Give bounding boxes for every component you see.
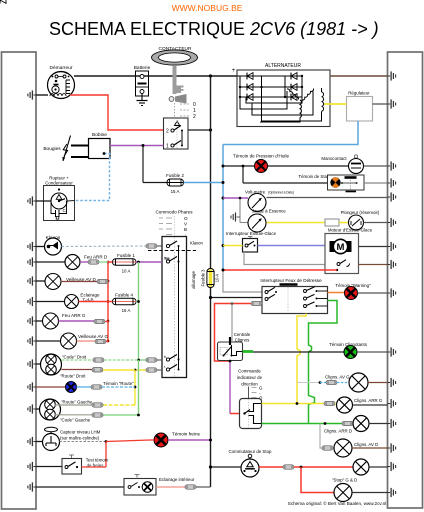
ignition key Contacteur <box>152 46 198 120</box>
ignition coil Bobine <box>89 132 111 159</box>
starter warning row <box>242 165 388 192</box>
régulateur <box>347 91 373 122</box>
connector pill route right <box>92 368 103 372</box>
wire ignition switch output to main vertical <box>188 129 211 131</box>
svg-text:r.: r. <box>164 365 166 369</box>
svg-text:Eclairage intérieur: Eclairage intérieur <box>159 477 195 482</box>
ground under battery <box>137 101 148 106</box>
svg-text:2: 2 <box>166 129 169 135</box>
svg-text:b.: b. <box>164 355 167 359</box>
yellow drop from hazard <box>297 314 306 405</box>
svg-text:Fusible 4: Fusible 4 <box>115 293 133 298</box>
rear right lamp Feu ARR D <box>36 255 108 270</box>
rear right indicator Cligns ARR D <box>324 416 388 434</box>
svg-text:10 A: 10 A <box>215 274 220 283</box>
svg-text:direction: direction <box>241 382 258 387</box>
connector pill code right <box>93 358 104 362</box>
starter-warning body connector <box>388 178 396 187</box>
green flasher output + wire to indicator lamp <box>243 350 254 353</box>
grey link to AV G wire <box>297 382 320 384</box>
ground rear left lamp ground <box>28 316 36 325</box>
connector pill stop wire <box>283 465 294 469</box>
svg-text:Commande: Commande <box>238 369 261 374</box>
hazard switch box <box>260 278 327 314</box>
headlamp left Route/Code Gauche <box>36 399 103 423</box>
svg-text:Capteur niveau LHM: Capteur niveau LHM <box>60 430 101 435</box>
brake warning lamp Témoin freins <box>150 432 212 448</box>
connector pill code wire <box>146 358 157 362</box>
svg-text:+: + <box>232 68 236 74</box>
rear left indicator Cligns ARR G <box>337 397 388 413</box>
connector pill route wire <box>146 368 157 372</box>
ground left headlamp ground <box>28 404 36 413</box>
oil pressure switch Manocontact <box>321 155 387 174</box>
flasher unit Centrale Clignos <box>218 332 251 361</box>
regulator body connector <box>388 99 396 108</box>
svg-text:indicateur de: indicateur de <box>237 375 263 380</box>
wire: red démarreur to ignition switch <box>70 95 164 130</box>
mechanical link dashed <box>148 250 196 252</box>
green output row to Cligns ARR D <box>262 423 344 425</box>
right rail connector symbols <box>388 71 396 497</box>
wire: klaxon to commodo (light blue dashed) <box>62 245 148 248</box>
svg-text:Témoin freins: Témoin freins <box>172 432 201 437</box>
fusible 2 branch from coil feed <box>142 146 144 183</box>
voltmeter <box>223 190 388 212</box>
svg-text:B: B <box>184 227 187 232</box>
green down to code gauche row <box>138 360 140 415</box>
svg-text:Feu ARR D: Feu ARR D <box>84 255 108 260</box>
svg-text:M: M <box>337 242 345 253</box>
high beam indicator Témoin Route <box>36 381 135 393</box>
stop lamp right <box>353 459 388 475</box>
green/yellow to commodo bottom contacts <box>139 359 147 361</box>
wire: grey from blue node down into hazard <box>223 270 262 292</box>
wire alternator out to right rail (brown) <box>330 75 388 77</box>
svg-text:Test témoin: Test témoin <box>86 458 109 463</box>
wiper switch <box>223 231 325 265</box>
ground right headlamp ground <box>28 359 36 368</box>
wire regulator to right rail <box>373 103 388 105</box>
fuel sender Plongeur <box>341 210 388 230</box>
svg-text:"Code" Gauche: "Code" Gauche <box>60 418 91 423</box>
manocontact body connector <box>388 161 396 170</box>
svg-text:SCHEMA ELECTRIQUE 2CV6 (1981 -: SCHEMA ELECTRIQUE 2CV6 (1981 -> ) <box>49 19 379 39</box>
park switch <box>337 263 340 266</box>
svg-text:Fusible 1: Fusible 1 <box>117 253 135 258</box>
connector pill front left sidelight <box>95 339 106 343</box>
ground points ground <box>28 196 36 205</box>
svg-text:feu: feu <box>165 257 170 261</box>
svg-text:Manocontact: Manocontact <box>321 156 347 161</box>
alternator <box>0 0 330 127</box>
connector pill horn wire <box>146 244 157 248</box>
svg-text:Témoin "Route": Témoin "Route" <box>103 381 134 386</box>
svg-text:Démarreur: Démarreur <box>50 65 73 71</box>
svg-text:Témoin de Pression d'Huile: Témoin de Pression d'Huile <box>233 154 289 159</box>
dash lighting Eclairage T-d-B <box>36 293 108 309</box>
connector pill front left indicator <box>326 380 337 384</box>
connector pill rear right indicator <box>342 421 353 425</box>
right stop lamp body connector <box>388 462 396 471</box>
front left side lamp Veilleuse AV G <box>36 333 108 349</box>
ground brake test ground <box>28 462 36 471</box>
svg-text:Commodo Phares: Commodo Phares <box>155 210 193 215</box>
route contact <box>166 368 169 371</box>
brake test switch Test témoin de freins <box>36 455 109 474</box>
ground dash light ground <box>28 297 36 306</box>
svg-text:Plongeur (réservoir): Plongeur (réservoir) <box>341 210 380 215</box>
connector pill rear right <box>88 260 99 264</box>
svg-text:Jauge à Essence: Jauge à Essence <box>252 209 286 214</box>
svg-text:Régulateur: Régulateur <box>348 91 370 96</box>
svg-text:Interrupteur Essuie-Glace: Interrupteur Essuie-Glace <box>226 231 277 236</box>
svg-text:Batterie: Batterie <box>134 65 151 71</box>
main vertical +perm wire <box>210 76 212 269</box>
red wire from sensor to brake warning circuit <box>106 440 150 442</box>
ground front right sidelight ground <box>28 276 36 285</box>
front left indicator body connector <box>388 378 396 387</box>
wiper motor <box>325 228 388 274</box>
wiper park body connector <box>388 260 396 269</box>
svg-text:Klaxon: Klaxon <box>190 241 203 246</box>
svg-text:Interrupteur Feux de Détresse: Interrupteur Feux de Détresse <box>260 278 322 283</box>
front right indicator body connector <box>388 443 396 452</box>
grey branch to Cligns AV D <box>320 424 322 449</box>
warning lamp <box>328 283 388 300</box>
svg-text:"Route" Gauche: "Route" Gauche <box>61 400 93 405</box>
svg-text:Bobine: Bobine <box>92 132 107 138</box>
fuel sender body connector <box>388 218 396 227</box>
svg-text:"Code" Droit: "Code" Droit <box>62 355 87 360</box>
svg-text:2: 2 <box>193 114 196 120</box>
horn Klaxon <box>45 235 62 255</box>
indicator lamp body connector <box>388 347 396 356</box>
svg-text:"Stop" G & D: "Stop" G & D <box>332 478 357 483</box>
front right side lamp Veilleuse AV D <box>36 274 108 290</box>
node junction at main vertical <box>209 74 212 77</box>
svg-text:16 A: 16 A <box>122 308 131 313</box>
ground rear right lamp ground <box>28 257 36 266</box>
battery Batterie <box>134 65 151 101</box>
connector pill high-beam indicator <box>91 385 102 389</box>
red wire from blue node bottom to wiper park <box>223 269 337 271</box>
diode rows <box>237 76 302 97</box>
rear left lamp Feu ARR G <box>36 313 108 329</box>
internal routing <box>240 76 322 122</box>
fusible 3 vertical on main wire <box>191 269 220 289</box>
svg-text:(sur maître-cylindre): (sur maître-cylindre) <box>60 436 100 441</box>
svg-text:Condensateur: Condensateur <box>45 181 73 186</box>
wire: fuse2 to blue node (blue) <box>184 182 224 184</box>
wire horn to commodo <box>157 245 162 247</box>
front left indicator Cligns AV G <box>320 373 388 392</box>
ignition switch box <box>164 118 189 150</box>
oil pressure warning lamp <box>223 154 349 173</box>
svg-text:10 A: 10 A <box>122 269 131 274</box>
svg-text:Fusible 3: Fusible 3 <box>201 269 206 287</box>
svg-text:Cligns. AV G: Cligns. AV G <box>325 375 350 380</box>
wire: bobine to rupteur (light blue dashed) <box>75 154 110 201</box>
svg-text:Fusible 2: Fusible 2 <box>166 173 184 178</box>
svg-text:O: O <box>184 216 188 221</box>
connector pill interior light <box>185 485 196 489</box>
headlamp right Code/Route Droit <box>36 354 139 379</box>
ground starter ground <box>28 90 36 99</box>
rotor coil <box>322 92 324 111</box>
svg-text:Bougies: Bougies <box>43 146 61 152</box>
connector pill code left <box>92 413 103 417</box>
svg-text:Feu ARR G: Feu ARR G <box>62 313 86 318</box>
ground LHM sensor ground <box>28 437 36 446</box>
yellow vertical (route) <box>134 370 136 405</box>
horn contact <box>166 244 169 247</box>
indicator warning lamp <box>329 342 387 359</box>
yellow to route gauche row <box>103 404 135 406</box>
wire: ground rail to démarreur <box>36 94 48 96</box>
wire regulator down and to blue node (blue) <box>223 121 358 145</box>
svg-text:(Optionnel à Date): (Optionnel à Date) <box>268 191 294 195</box>
connector pill rear left <box>94 319 105 323</box>
ground horn ground <box>28 242 36 251</box>
ground interior light ground <box>28 482 36 491</box>
stop switch Commutateur de Stop <box>209 449 272 477</box>
front right indicator Cligns AV D <box>322 439 388 457</box>
warning lamp body connector <box>388 288 396 297</box>
right body rail <box>388 52 423 508</box>
wire: feed from main vertical to hazard <box>211 297 263 299</box>
wire fuse1 out violet to commodo <box>136 261 162 263</box>
connector pill hazard feed <box>251 301 262 305</box>
left stop lamp body connector <box>388 488 396 497</box>
fuel gauge <box>231 197 349 232</box>
connector pill front right indicator <box>322 446 333 450</box>
svg-text:Cligns. ARR G: Cligns. ARR G <box>354 398 383 403</box>
violet drop flasher to turn-signal switch <box>229 361 231 414</box>
svg-text:Moteur d'Essuie-Glace: Moteur d'Essuie-Glace <box>328 228 373 233</box>
connector pill route left <box>92 403 103 407</box>
wire alternator to regulator (yellow) <box>324 103 347 105</box>
svg-text:Centrale: Centrale <box>234 332 251 337</box>
turn signal switch Commande indicateur de direction <box>237 369 263 429</box>
ground front left sidelight ground <box>28 336 36 345</box>
stator windings (Y) <box>287 89 324 118</box>
wire: bobine + to ignition switch (violet) <box>110 145 164 147</box>
rear right indicator body connector <box>388 419 396 428</box>
code contact <box>166 358 169 361</box>
right contacts 3 rows <box>304 287 328 308</box>
svg-text:Cligns. ARR D: Cligns. ARR D <box>324 429 352 434</box>
internal bus <box>178 246 180 370</box>
svg-text:allumage: allumage <box>191 271 196 289</box>
blue node vertical <box>222 145 224 271</box>
svg-text:Schema original: © Bert Van Ba: Schema original: © Bert Van Baalen, www.… <box>288 500 386 506</box>
voltmeter body connector <box>388 192 396 201</box>
red feed vertical left lamps <box>107 262 109 341</box>
6 diodes <box>0 0 6 3</box>
stop lamp left <box>332 478 388 502</box>
wire: main supply démarreur->batterie->alternateur <box>74 75 237 77</box>
starter motor Démarreur <box>48 65 75 99</box>
connector pill front right sidelight <box>97 279 108 283</box>
svg-text:Veilleuse AV G: Veilleuse AV G <box>78 334 108 339</box>
svg-text:ALTERNATEUR: ALTERNATEUR <box>265 63 301 69</box>
red wire stop switch to stop lamps <box>259 466 283 468</box>
svg-text:WWW.NOBUG.BE: WWW.NOBUG.BE <box>172 3 243 13</box>
svg-text:Cligns. AV D: Cligns. AV D <box>354 442 378 447</box>
brake fluid sensor Capteur niveau LHM <box>36 427 107 450</box>
svg-text:1: 1 <box>166 144 169 150</box>
rear left indicator body connector <box>388 399 396 408</box>
yellow output row to Cligns ARR G <box>262 403 325 405</box>
grey drop to flasher <box>231 304 233 342</box>
interior light Eclairage intérieur <box>36 475 211 496</box>
wiper motor body connector <box>388 242 396 251</box>
commodo box <box>162 237 187 378</box>
spark plugs Bougies <box>43 136 88 162</box>
green feed vertical <box>138 262 140 360</box>
svg-text:Commutateur de Stop: Commutateur de Stop <box>229 449 273 454</box>
ground high-beam indicator ground <box>28 382 36 391</box>
green drop from hazard <box>309 301 338 424</box>
alternator B+ body connector <box>388 71 396 80</box>
veilleuse contact <box>166 260 169 263</box>
points Rupteur + Condensateur <box>44 176 75 221</box>
left body rail <box>2 52 37 509</box>
connector pill rear left indicator <box>324 401 335 405</box>
svg-text:15 A: 15 A <box>171 189 180 194</box>
svg-text:"Route" Droit: "Route" Droit <box>60 374 86 379</box>
